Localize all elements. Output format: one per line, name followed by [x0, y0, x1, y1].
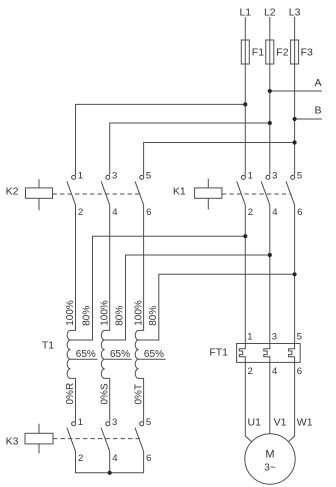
wire K2 mechanical link (dashed) — [53, 193, 143, 195]
svg-text:2: 2 — [248, 207, 253, 218]
svg-text:5: 5 — [146, 417, 151, 428]
wire phase L2 vertical top — [269, 17, 271, 175]
node junction L2/feed — [268, 121, 272, 125]
wire phase L3 vertical top — [294, 17, 296, 175]
transformer T1 winding 1 — [67, 205, 75, 422]
overload FT1 element pole 5-6 — [289, 331, 302, 377]
svg-text:6: 6 — [146, 453, 151, 464]
svg-text:K2: K2 — [6, 185, 19, 197]
svg-text:100%: 100% — [65, 300, 76, 326]
svg-text:100%: 100% — [133, 300, 144, 326]
svg-text:M: M — [265, 448, 274, 460]
transformer T1 winding 3 — [135, 205, 143, 422]
svg-text:V1: V1 — [274, 416, 287, 428]
svg-text:5: 5 — [146, 170, 151, 181]
svg-text:B: B — [314, 105, 321, 117]
svg-text:W1: W1 — [297, 416, 313, 428]
wire K1 mechanical link (dashed) — [222, 193, 292, 195]
node junction 80%w3 — [293, 272, 297, 276]
svg-text:F2: F2 — [276, 47, 288, 59]
svg-text:1: 1 — [248, 170, 253, 181]
svg-text:K3: K3 — [6, 435, 19, 447]
contact K1 pole 3-4 — [261, 170, 277, 217]
svg-text:4: 4 — [112, 453, 117, 464]
svg-text:L2: L2 — [264, 7, 276, 19]
wire phase L1 vertical top — [244, 17, 246, 175]
node junction L3/B — [293, 117, 297, 121]
svg-text:0%S: 0%S — [99, 383, 110, 404]
contact K3 pole 1-2 — [67, 417, 83, 464]
wire tap B from L3 — [295, 118, 322, 120]
node junction 80%w2 — [268, 253, 272, 257]
contact K3 pole 3-4 — [101, 417, 117, 464]
svg-text:T1: T1 — [42, 340, 54, 352]
svg-text:L1: L1 — [239, 7, 251, 19]
svg-text:F3: F3 — [301, 47, 313, 59]
svg-text:65%: 65% — [144, 349, 164, 360]
node junction L1/feed — [243, 102, 247, 106]
overload FT1 element pole 1-2 — [239, 331, 252, 377]
svg-text:3: 3 — [112, 417, 117, 428]
wire 80% tap winding2 to K1 output — [105, 255, 270, 340]
svg-text:4: 4 — [272, 366, 277, 377]
wire 65% tap winding 1 — [71, 358, 98, 360]
svg-text:2: 2 — [248, 366, 253, 377]
fuse F2 — [266, 40, 274, 64]
svg-text:80%: 80% — [148, 306, 159, 326]
contact K1 pole 1-2 — [237, 170, 253, 217]
wire K1 pole2 down to FT1 — [269, 205, 271, 344]
fuse F1 — [241, 40, 249, 64]
wire K3 star bus — [76, 451, 144, 473]
svg-text:80%: 80% — [115, 306, 126, 326]
svg-text:0%T: 0%T — [133, 384, 144, 405]
svg-text:1: 1 — [247, 331, 252, 342]
svg-text:A: A — [314, 77, 321, 89]
transformer T1 winding 2 — [101, 205, 109, 422]
wire K3 mechanical link (dashed) — [53, 438, 142, 440]
contact K1 pole 5-6 — [286, 170, 302, 217]
svg-text:4: 4 — [112, 207, 117, 218]
svg-text:0%R: 0%R — [65, 383, 76, 405]
wire feed L1 to K2 pole 1 — [76, 104, 246, 175]
wire feed L3 to K2 pole 3 — [144, 143, 295, 176]
svg-text:K1: K1 — [173, 185, 186, 197]
svg-text:3: 3 — [272, 170, 277, 181]
wire FT1 to motor W1 — [288, 362, 294, 441]
svg-text:100%: 100% — [99, 300, 110, 326]
svg-text:L3: L3 — [289, 7, 301, 19]
svg-text:6: 6 — [297, 366, 302, 377]
overload relay FT1 box — [237, 344, 301, 363]
node junction L2/A — [268, 89, 272, 93]
svg-text:F1: F1 — [252, 47, 264, 59]
contactor K3 coil — [6, 424, 53, 454]
svg-text:3: 3 — [112, 170, 117, 181]
contact K2 pole 3-4 — [101, 170, 117, 217]
svg-text:4: 4 — [272, 207, 277, 218]
wire 80% tap winding3 to K1 output — [139, 274, 295, 340]
wire K1 pole3 down to FT1 — [294, 205, 296, 344]
wire FT1 to motor V1 — [269, 362, 271, 433]
wire feed L2 to K2 pole 2 — [110, 123, 270, 175]
contact K2 pole 5-6 — [135, 170, 151, 217]
svg-text:5: 5 — [297, 170, 302, 181]
svg-text:3: 3 — [272, 331, 277, 342]
svg-text:2: 2 — [78, 207, 83, 218]
svg-text:65%: 65% — [110, 349, 130, 360]
svg-text:5: 5 — [297, 331, 302, 342]
motor M1 circle — [245, 434, 295, 484]
svg-text:65%: 65% — [76, 349, 96, 360]
svg-text:U1: U1 — [248, 416, 262, 428]
node junction 80%w1 — [243, 234, 247, 238]
svg-text:1: 1 — [78, 170, 83, 181]
svg-text:1: 1 — [78, 417, 83, 428]
svg-text:6: 6 — [297, 207, 302, 218]
fuse F3 — [291, 40, 299, 64]
contactor K1 coil — [173, 179, 222, 210]
node junction L3/feed — [293, 140, 297, 144]
svg-text:6: 6 — [146, 207, 151, 218]
overload FT1 element pole 3-4 — [264, 331, 277, 377]
svg-text:2: 2 — [78, 453, 83, 464]
node junction star point — [108, 471, 112, 475]
svg-text:FT1: FT1 — [209, 347, 228, 359]
svg-text:80%: 80% — [82, 306, 93, 326]
wire K1 pole1 down to FT1 — [244, 205, 246, 344]
wire tap A from L2 — [270, 90, 322, 92]
svg-text:3~: 3~ — [264, 463, 276, 474]
contact K3 pole 5-6 — [135, 417, 151, 464]
contact K2 pole 1-2 — [67, 170, 83, 217]
wire 80% tap winding1 to K1 output — [71, 236, 246, 340]
wire 65% tap winding 3 — [139, 358, 166, 360]
wire 65% tap winding 2 — [105, 358, 132, 360]
contactor K2 coil — [6, 179, 53, 210]
wire FT1 to motor U1 — [245, 362, 251, 441]
